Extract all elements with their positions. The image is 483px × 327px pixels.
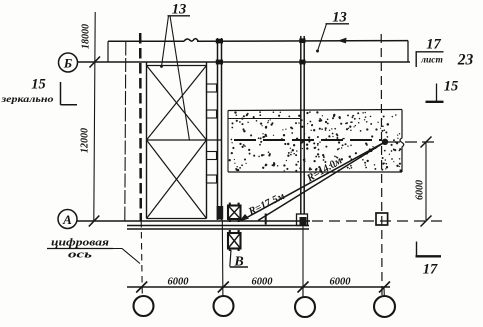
grid 4 dashed line [380,34,383,296]
hoist box 1 [228,203,241,222]
braced tower right post [206,62,208,219]
svg-text:6000: 6000 [252,277,274,288]
ladder rung 1 [207,84,217,92]
section mark 15 right vertical [436,84,438,103]
axis circle B top [59,53,78,72]
concrete band top edge [228,110,402,111]
crane rail dashed line [234,139,381,141]
concrete band left edge [227,111,229,173]
grid circle 2 [214,296,234,316]
braced tower left post [146,62,148,219]
tower cross brace lower [147,140,207,219]
dimension line vertical 18000/12000 [89,12,100,227]
svg-text:13: 13 [332,10,347,26]
grid circle 3 [295,297,315,317]
bottom dim tick 1 [136,282,147,293]
crane support square on grid 4 [376,213,388,225]
svg-text:13: 13 [172,2,187,18]
column 3 crossing blob at axis B [299,60,305,65]
tower middle rail [147,139,222,141]
tick top right dim [421,137,432,148]
section mark 17 bottom vertical [416,242,418,257]
arrowhead R=17.5m [239,214,250,222]
tick at end of R=14.0m [265,214,267,225]
tsifrovaya underline [47,248,113,250]
column 3 base plate [297,214,308,226]
column 3 left line [300,36,302,214]
bottom dim tick 4 [379,282,390,293]
tower bottom rail [147,218,207,220]
label V underline [230,266,248,268]
axis circle A bottom [58,210,77,229]
label 13 left leader a dot [160,65,163,68]
leader to label V [230,250,231,267]
svg-text:6000: 6000 [415,180,426,200]
svg-text:цифровая: цифровая [51,238,110,249]
concrete band second top line [228,118,300,120]
dimension line 6000 right vertical [425,142,427,221]
svg-text:15: 15 [31,77,46,93]
section mark 17 bottom horizontal [416,255,442,257]
column 2 base [217,206,224,220]
section mark 15 right horizontal [426,101,444,103]
tick bottom right dim [421,216,432,227]
ladder rung 2 [207,110,217,118]
concrete band bottom edge [228,171,402,173]
svg-text:лист: лист [420,56,443,66]
tsifrovaya leader [113,249,140,264]
axis line A horizontal solid [77,220,310,222]
column 2 crossing blob at axis B [216,60,223,65]
crane radius line R=17.5m [241,142,386,221]
svg-text:Б: Б [63,56,72,71]
svg-text:18000: 18000 [81,24,92,49]
label 13 right underline [326,23,350,25]
grid 1 line below A [141,221,142,296]
label 13 right leader [318,24,327,51]
grid circle 1 [134,296,154,316]
top chord of wall band [108,39,408,42]
column 3 right line [303,36,305,214]
label 13 left leader b [170,16,190,141]
svg-text:ось: ось [68,250,92,261]
foundation beam upper line [127,225,309,227]
column 2 mast left line [217,38,219,220]
svg-text:6000: 6000 [330,277,352,288]
wall band right edge [407,41,409,62]
crane rail dashes right of pivot [388,141,434,143]
tower cross brace upper [147,66,207,141]
concrete stipple dots [229,111,402,172]
section mark 15 left horizontal [61,104,78,106]
label 13 right leader dot [316,50,319,53]
wall band left cap [107,41,109,62]
svg-text:зеркально: зеркально [0,94,54,104]
column 3 crossing blob at top chord [299,38,305,43]
grid 3 line below base [302,226,304,297]
hoist box 2 [228,230,241,251]
ladder rung 4 [207,175,217,183]
svg-text:15: 15 [444,79,459,95]
svg-text:12000: 12000 [80,128,91,153]
section mark 17 top bar [416,51,444,53]
svg-text:17: 17 [426,37,441,53]
concrete band right edge with break [400,110,404,173]
break arrow on top chord [338,38,347,44]
grid stub above circle 3 [302,287,304,297]
tower top rail [147,65,207,67]
bottom dimension line [127,286,390,288]
label 13 left underline [168,15,191,17]
axis line B horizontal [78,61,411,63]
svg-text:6000: 6000 [168,277,190,288]
bottom dim tick 2 [218,282,229,293]
thin wall line left [125,42,126,222]
grid circle 4 [374,296,395,317]
column 2 crossing blob at top chord [216,39,223,44]
section mark 17 top tick [415,52,417,67]
section mark 15 left vertical [60,82,62,105]
crane radius line R=14.0m [258,142,385,221]
ladder rung 3 [207,152,217,160]
grid stub above circle 4 [383,287,385,296]
column 3 base blob [300,217,307,226]
svg-text:23: 23 [457,52,474,69]
svg-text:А: А [62,212,72,227]
svg-text:17: 17 [423,262,438,278]
axis line A dashed extension [312,220,443,222]
crane pivot dot [382,139,388,145]
heavy dashed erection axis line [139,33,142,221]
bottom dim tick 3 [298,282,309,293]
grid 2 line below A [221,220,224,296]
foundation beam lower line [127,228,309,230]
label 13 left leader a [162,16,169,67]
column 2 mast right line [221,38,223,220]
